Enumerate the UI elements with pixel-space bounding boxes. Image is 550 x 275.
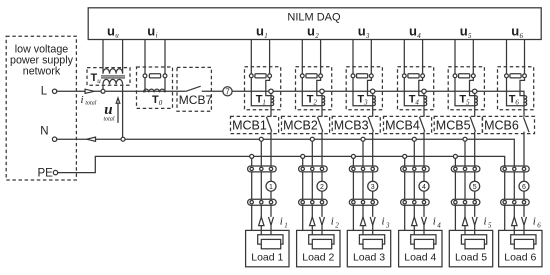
meter 6 circle: [519, 181, 529, 191]
svg-text:i: i: [484, 216, 487, 228]
node T0 secondary left: [143, 74, 147, 78]
breaker MCB6 box: [483, 116, 535, 133]
wire branch 4 neutral to load: [413, 139, 415, 235]
wire Tu primary right to N: [122, 84, 124, 137]
wire branch 2 neutral to load: [311, 139, 313, 235]
wire T6 branch primary: [523, 96, 525, 117]
svg-text:MCB2: MCB2: [283, 119, 318, 133]
breaker MCB4 box: [384, 116, 432, 133]
svg-text:total: total: [104, 117, 115, 123]
svg-text:4: 4: [422, 184, 426, 191]
transformer T1 box: [245, 67, 281, 110]
node PE junction 1: [250, 154, 254, 158]
terminal strip 1 branch 6: [501, 166, 530, 172]
terminal strip 2 branch 3: [349, 199, 378, 205]
node N junction 3: [361, 137, 365, 141]
label T1: [256, 93, 266, 106]
N return arrow: [87, 137, 96, 141]
svg-text:i: i: [533, 216, 536, 228]
transformer T3 box: [346, 67, 382, 110]
switch MCB5 blade: [470, 117, 475, 132]
svg-text:2: 2: [335, 222, 339, 230]
resistor T6 burden: [510, 74, 521, 78]
label u_u: [107, 24, 119, 40]
svg-text:network: network: [23, 66, 61, 78]
breaker MCB2 box: [282, 116, 330, 133]
current arrow up branch 2: [310, 217, 315, 226]
svg-text:2: 2: [313, 98, 317, 106]
svg-text:7: 7: [225, 87, 230, 96]
wire u_6 left lead: [506, 40, 508, 74]
svg-text:u: u: [115, 32, 119, 40]
wire load 2 internal: [309, 235, 334, 244]
wire branch 3 neutral to load: [362, 139, 364, 235]
svg-text:0: 0: [159, 99, 163, 107]
wire u_4 right lead: [422, 40, 424, 74]
wire load 5 internal: [461, 235, 486, 244]
inductor T4 winding: [424, 96, 427, 106]
wire T6 right lead step: [520, 78, 525, 96]
svg-text:MCB7: MCB7: [179, 93, 213, 107]
wire T1 branch primary: [270, 93, 272, 116]
resistor load 3 element: [363, 239, 382, 248]
node T5 secondary right: [471, 74, 475, 78]
wire branch 3 line to load: [372, 132, 374, 235]
node L tap junction: [101, 89, 105, 93]
label i_total: [81, 94, 97, 107]
transformer T0 box: [137, 67, 173, 108]
wire branch 5 PE to load: [454, 156, 456, 230]
resistor T5 burden: [459, 74, 470, 78]
label u_5: [460, 24, 472, 40]
load 2 box: [297, 230, 340, 266]
wire u_1 left lead: [250, 40, 252, 74]
label low voltage power supply network: [10, 44, 74, 78]
inductor T5 winding: [475, 96, 478, 106]
switch MCB1 blade: [266, 117, 271, 132]
current arrow down i_1: [269, 217, 274, 225]
wire u_i left lead: [144, 40, 146, 74]
i_total arrow: [85, 89, 94, 93]
current arrow up branch 5: [462, 217, 467, 226]
svg-text:i: i: [156, 32, 158, 40]
wire branch 4 PE to load: [404, 156, 406, 230]
label u_3: [358, 24, 370, 40]
svg-text:MCB4: MCB4: [385, 119, 420, 133]
resistor load 5 element: [465, 239, 484, 248]
load 5 box: [449, 230, 492, 266]
wire u_2 right lead: [320, 40, 322, 74]
current arrow up branch 6: [512, 217, 517, 226]
node N junction 2: [310, 137, 314, 141]
switch MCB4 blade: [419, 117, 424, 132]
terminal strip 1 branch 3: [349, 166, 378, 172]
u_total arrow: [116, 98, 120, 123]
node PE junction 3: [351, 154, 355, 158]
svg-text:Load 2: Load 2: [302, 251, 334, 263]
transformer T4 box: [398, 67, 434, 110]
wire u_4 left lead: [403, 40, 405, 74]
load 6 box: [499, 230, 542, 266]
wire branch 6 neutral to load: [513, 166, 515, 235]
label i_2: [331, 216, 340, 230]
svg-text:i: i: [433, 216, 436, 228]
label u_i: [147, 24, 157, 40]
resistor load 6 element: [514, 239, 533, 248]
wire u_3 right lead: [370, 40, 372, 74]
svg-text:L: L: [41, 86, 48, 98]
wire N bus: [56, 139, 514, 166]
svg-text:1: 1: [262, 98, 266, 106]
resistor T2 burden: [306, 74, 317, 78]
meter 3 circle: [368, 181, 378, 191]
wire branch 4 line to load: [423, 132, 425, 235]
node N junction 4: [412, 137, 416, 141]
meter 4 circle: [419, 181, 429, 191]
node T1 secondary right: [268, 74, 272, 78]
svg-text:5: 5: [473, 184, 477, 191]
svg-text:4: 4: [417, 32, 421, 40]
svg-text:3: 3: [365, 32, 370, 40]
current arrow up branch 3: [360, 217, 365, 226]
node T3 secondary left: [351, 74, 355, 78]
svg-text:MCB5: MCB5: [436, 119, 471, 133]
wire T2 left secondary lead: [302, 78, 322, 106]
label u_6: [511, 24, 523, 40]
resistor T0 burden: [149, 74, 160, 78]
breaker MCB1 box: [231, 116, 279, 133]
label i_1: [280, 216, 288, 230]
wire branch 3 PE to load: [352, 156, 354, 230]
wire T5 right lead step: [470, 78, 475, 96]
label u_4: [409, 24, 421, 40]
svg-text:i: i: [81, 94, 84, 106]
wire T0 right lead down: [164, 78, 166, 93]
wire T2 branch primary: [321, 93, 323, 116]
wire T3 branch primary: [372, 93, 374, 116]
label u_2: [307, 24, 319, 40]
svg-text:6: 6: [520, 32, 524, 40]
resistor load 2 element: [312, 239, 331, 248]
node T1 secondary left: [249, 74, 253, 78]
svg-text:i: i: [280, 216, 283, 228]
svg-text:u: u: [409, 24, 417, 39]
node T4 secondary right: [421, 74, 425, 78]
inductor T0 winding: [144, 89, 165, 92]
low voltage power supply network box: [6, 36, 76, 180]
wire T5 branch primary: [474, 93, 476, 116]
label T6: [509, 93, 520, 106]
switch MCB7 blade: [186, 86, 201, 91]
svg-text:u: u: [256, 24, 264, 39]
wire u_5 left lead: [454, 40, 456, 74]
node T6 secondary left: [505, 74, 509, 78]
resistor T3 burden: [357, 74, 368, 78]
node PE junction 2: [301, 154, 305, 158]
wire load 4 internal: [411, 235, 436, 244]
current arrow down i_5: [472, 217, 477, 225]
wire T6 left secondary lead: [507, 78, 525, 106]
terminal strip 1 branch 5: [451, 166, 480, 172]
wire T2 right lead step: [317, 78, 322, 96]
transformer Tu secondary winding: [103, 69, 123, 74]
svg-text:NILM DAQ: NILM DAQ: [287, 12, 341, 24]
label u_1: [256, 24, 268, 40]
current arrow down i_2: [320, 217, 325, 225]
wire load 3 internal: [359, 235, 384, 244]
node T5 secondary left: [453, 74, 457, 78]
svg-text:Load 1: Load 1: [251, 251, 283, 263]
wire u_i right lead: [164, 40, 166, 74]
svg-text:u: u: [511, 24, 519, 39]
node PE junction 5: [453, 154, 457, 158]
svg-text:i: i: [331, 216, 334, 228]
svg-text:6: 6: [515, 98, 519, 106]
terminal strip 1 branch 1: [248, 166, 277, 172]
svg-text:3: 3: [363, 98, 368, 106]
wire branch 2 PE to load: [302, 156, 304, 230]
switch MCB6 blade: [524, 117, 530, 132]
transformer Tu box: [87, 68, 130, 86]
wire u_u left lead: [102, 40, 104, 74]
wire u_u right lead: [122, 40, 124, 74]
wire PE bus: [57, 156, 504, 172]
breaker MCB7 box: [177, 67, 211, 111]
wire T4 right lead step: [419, 78, 424, 96]
label i_4: [433, 216, 442, 230]
resistor T1 burden: [255, 74, 266, 78]
svg-text:u: u: [147, 24, 155, 39]
svg-text:4: 4: [437, 222, 441, 230]
svg-text:1: 1: [264, 32, 268, 40]
svg-text:PE: PE: [38, 168, 54, 180]
svg-text:2: 2: [320, 184, 324, 191]
svg-text:1: 1: [269, 184, 273, 191]
label Tu: [91, 72, 102, 85]
svg-text:u: u: [104, 102, 112, 118]
switch MCB3 blade: [368, 117, 373, 132]
transformer Tu core: [101, 76, 125, 78]
node T4 secondary left: [402, 74, 406, 78]
wire branch 6 PE to load: [504, 166, 506, 230]
svg-text:MCB6: MCB6: [484, 119, 519, 133]
node N junction 5: [463, 137, 467, 141]
label T3: [357, 93, 368, 106]
wire T4 branch primary: [423, 93, 425, 116]
wire T5 left secondary lead: [455, 78, 475, 106]
svg-text:5: 5: [488, 222, 492, 230]
transformer T5 box: [448, 67, 484, 110]
wire T4 left secondary lead: [404, 78, 424, 106]
svg-text:Load 3: Load 3: [353, 251, 385, 263]
wire branch 6 line to load: [523, 132, 525, 235]
svg-text:N: N: [40, 125, 48, 137]
meter 2 circle: [317, 181, 327, 191]
load 1 box: [246, 230, 289, 266]
wire T1 left secondary lead: [251, 78, 271, 106]
node T3 secondary right: [369, 74, 373, 78]
label i_3: [382, 216, 391, 230]
svg-text:u: u: [97, 77, 101, 85]
svg-text:u: u: [307, 24, 315, 39]
inductor T6 winding: [524, 96, 527, 106]
svg-text:4: 4: [415, 98, 419, 106]
svg-text:MCB1: MCB1: [232, 119, 267, 133]
svg-text:u: u: [107, 24, 115, 39]
terminal strip 1 branch 4: [401, 166, 430, 172]
node L branch junction 3: [371, 89, 375, 93]
wire branch 1 neutral to load: [260, 139, 262, 235]
svg-text:1: 1: [284, 222, 288, 230]
wire u_3 left lead: [352, 40, 354, 74]
node T2 secondary right: [319, 74, 323, 78]
node T2 secondary left: [300, 74, 304, 78]
terminal strip 2 branch 6: [501, 199, 530, 205]
wire u_1 right lead: [269, 40, 271, 74]
wire u_6 right lead: [524, 40, 526, 74]
wire branch 5 line to load: [474, 132, 476, 235]
wire L bus: [56, 91, 524, 95]
inductor T3 winding: [373, 96, 376, 106]
svg-text:2: 2: [315, 32, 319, 40]
NILM DAQ box U0: [88, 8, 541, 40]
svg-text:u: u: [460, 24, 468, 39]
svg-text:3: 3: [385, 222, 390, 230]
svg-text:6: 6: [522, 184, 526, 191]
svg-text:Load 4: Load 4: [404, 251, 436, 263]
svg-text:total: total: [85, 101, 96, 107]
node L branch junction 5: [473, 89, 477, 93]
resistor load 4 element: [414, 239, 433, 248]
wire branch 1 line to load: [270, 132, 272, 235]
terminal strip 2 branch 1: [248, 199, 277, 205]
label T2: [307, 93, 318, 106]
svg-text:Load 5: Load 5: [455, 251, 487, 263]
wire u_2 left lead: [301, 40, 303, 74]
wire branch 2 line to load: [321, 132, 323, 235]
svg-text:3: 3: [371, 184, 375, 191]
svg-text:i: i: [382, 216, 385, 228]
breaker MCB3 box: [332, 116, 380, 133]
inductor T1 winding: [271, 96, 274, 106]
wire load 6 internal: [511, 235, 536, 244]
terminal strip 2 branch 2: [299, 199, 328, 205]
current arrow up branch 1: [259, 217, 264, 226]
terminal strip 1 branch 2: [299, 166, 328, 172]
wire T1 right lead step: [266, 78, 271, 96]
node L branch junction 4: [422, 89, 426, 93]
svg-text:5: 5: [468, 32, 472, 40]
terminal strip 2 branch 5: [451, 199, 480, 205]
switch MCB2 blade: [317, 117, 322, 132]
transformer T6 box: [498, 67, 534, 110]
wire T0 left lead down: [144, 78, 146, 93]
node T0 secondary right: [163, 74, 167, 78]
label u_total: [104, 102, 115, 123]
label T4: [409, 93, 420, 106]
node N tap junction: [121, 137, 125, 141]
wire branch 1 PE to load: [251, 156, 253, 230]
resistor load 1 element: [261, 239, 280, 248]
resistor T4 burden: [408, 74, 419, 78]
label T0: [152, 94, 163, 107]
current arrow down i_6: [522, 217, 527, 225]
svg-text:Load 6: Load 6: [504, 251, 536, 263]
load 4 box: [399, 230, 442, 266]
current arrow up branch 4: [412, 217, 417, 226]
node N junction 1: [259, 137, 263, 141]
meter 5 circle: [470, 181, 480, 191]
svg-text:6: 6: [537, 222, 541, 230]
label i_6: [533, 216, 542, 230]
node PE junction 4: [403, 154, 407, 158]
transformer T2 box: [296, 67, 332, 110]
wire u_5 right lead: [472, 40, 474, 74]
breaker MCB5 box: [434, 116, 482, 133]
wire load 1 internal: [258, 235, 283, 244]
load 3 box: [347, 230, 390, 266]
wire Tu primary left to L: [102, 84, 104, 89]
node L branch junction 1: [269, 89, 273, 93]
node 7 meter circle: [223, 87, 232, 96]
current arrow down i_4: [422, 217, 427, 225]
transformer Tu primary winding: [103, 79, 123, 84]
svg-text:MCB3: MCB3: [334, 119, 369, 133]
current arrow down i_3: [370, 217, 375, 225]
terminal strip 2 branch 4: [401, 199, 430, 205]
wire T3 left secondary lead: [353, 78, 373, 106]
label i_5: [484, 216, 493, 230]
node L branch junction 2: [320, 89, 324, 93]
label T5: [459, 93, 470, 106]
wire branch 5 neutral to load: [464, 139, 466, 235]
svg-text:u: u: [358, 24, 366, 39]
wire T3 right lead step: [368, 78, 373, 96]
svg-text:5: 5: [466, 98, 470, 106]
meter 1 circle: [266, 181, 276, 191]
inductor T2 winding: [322, 96, 325, 106]
node T6 secondary right: [523, 74, 527, 78]
